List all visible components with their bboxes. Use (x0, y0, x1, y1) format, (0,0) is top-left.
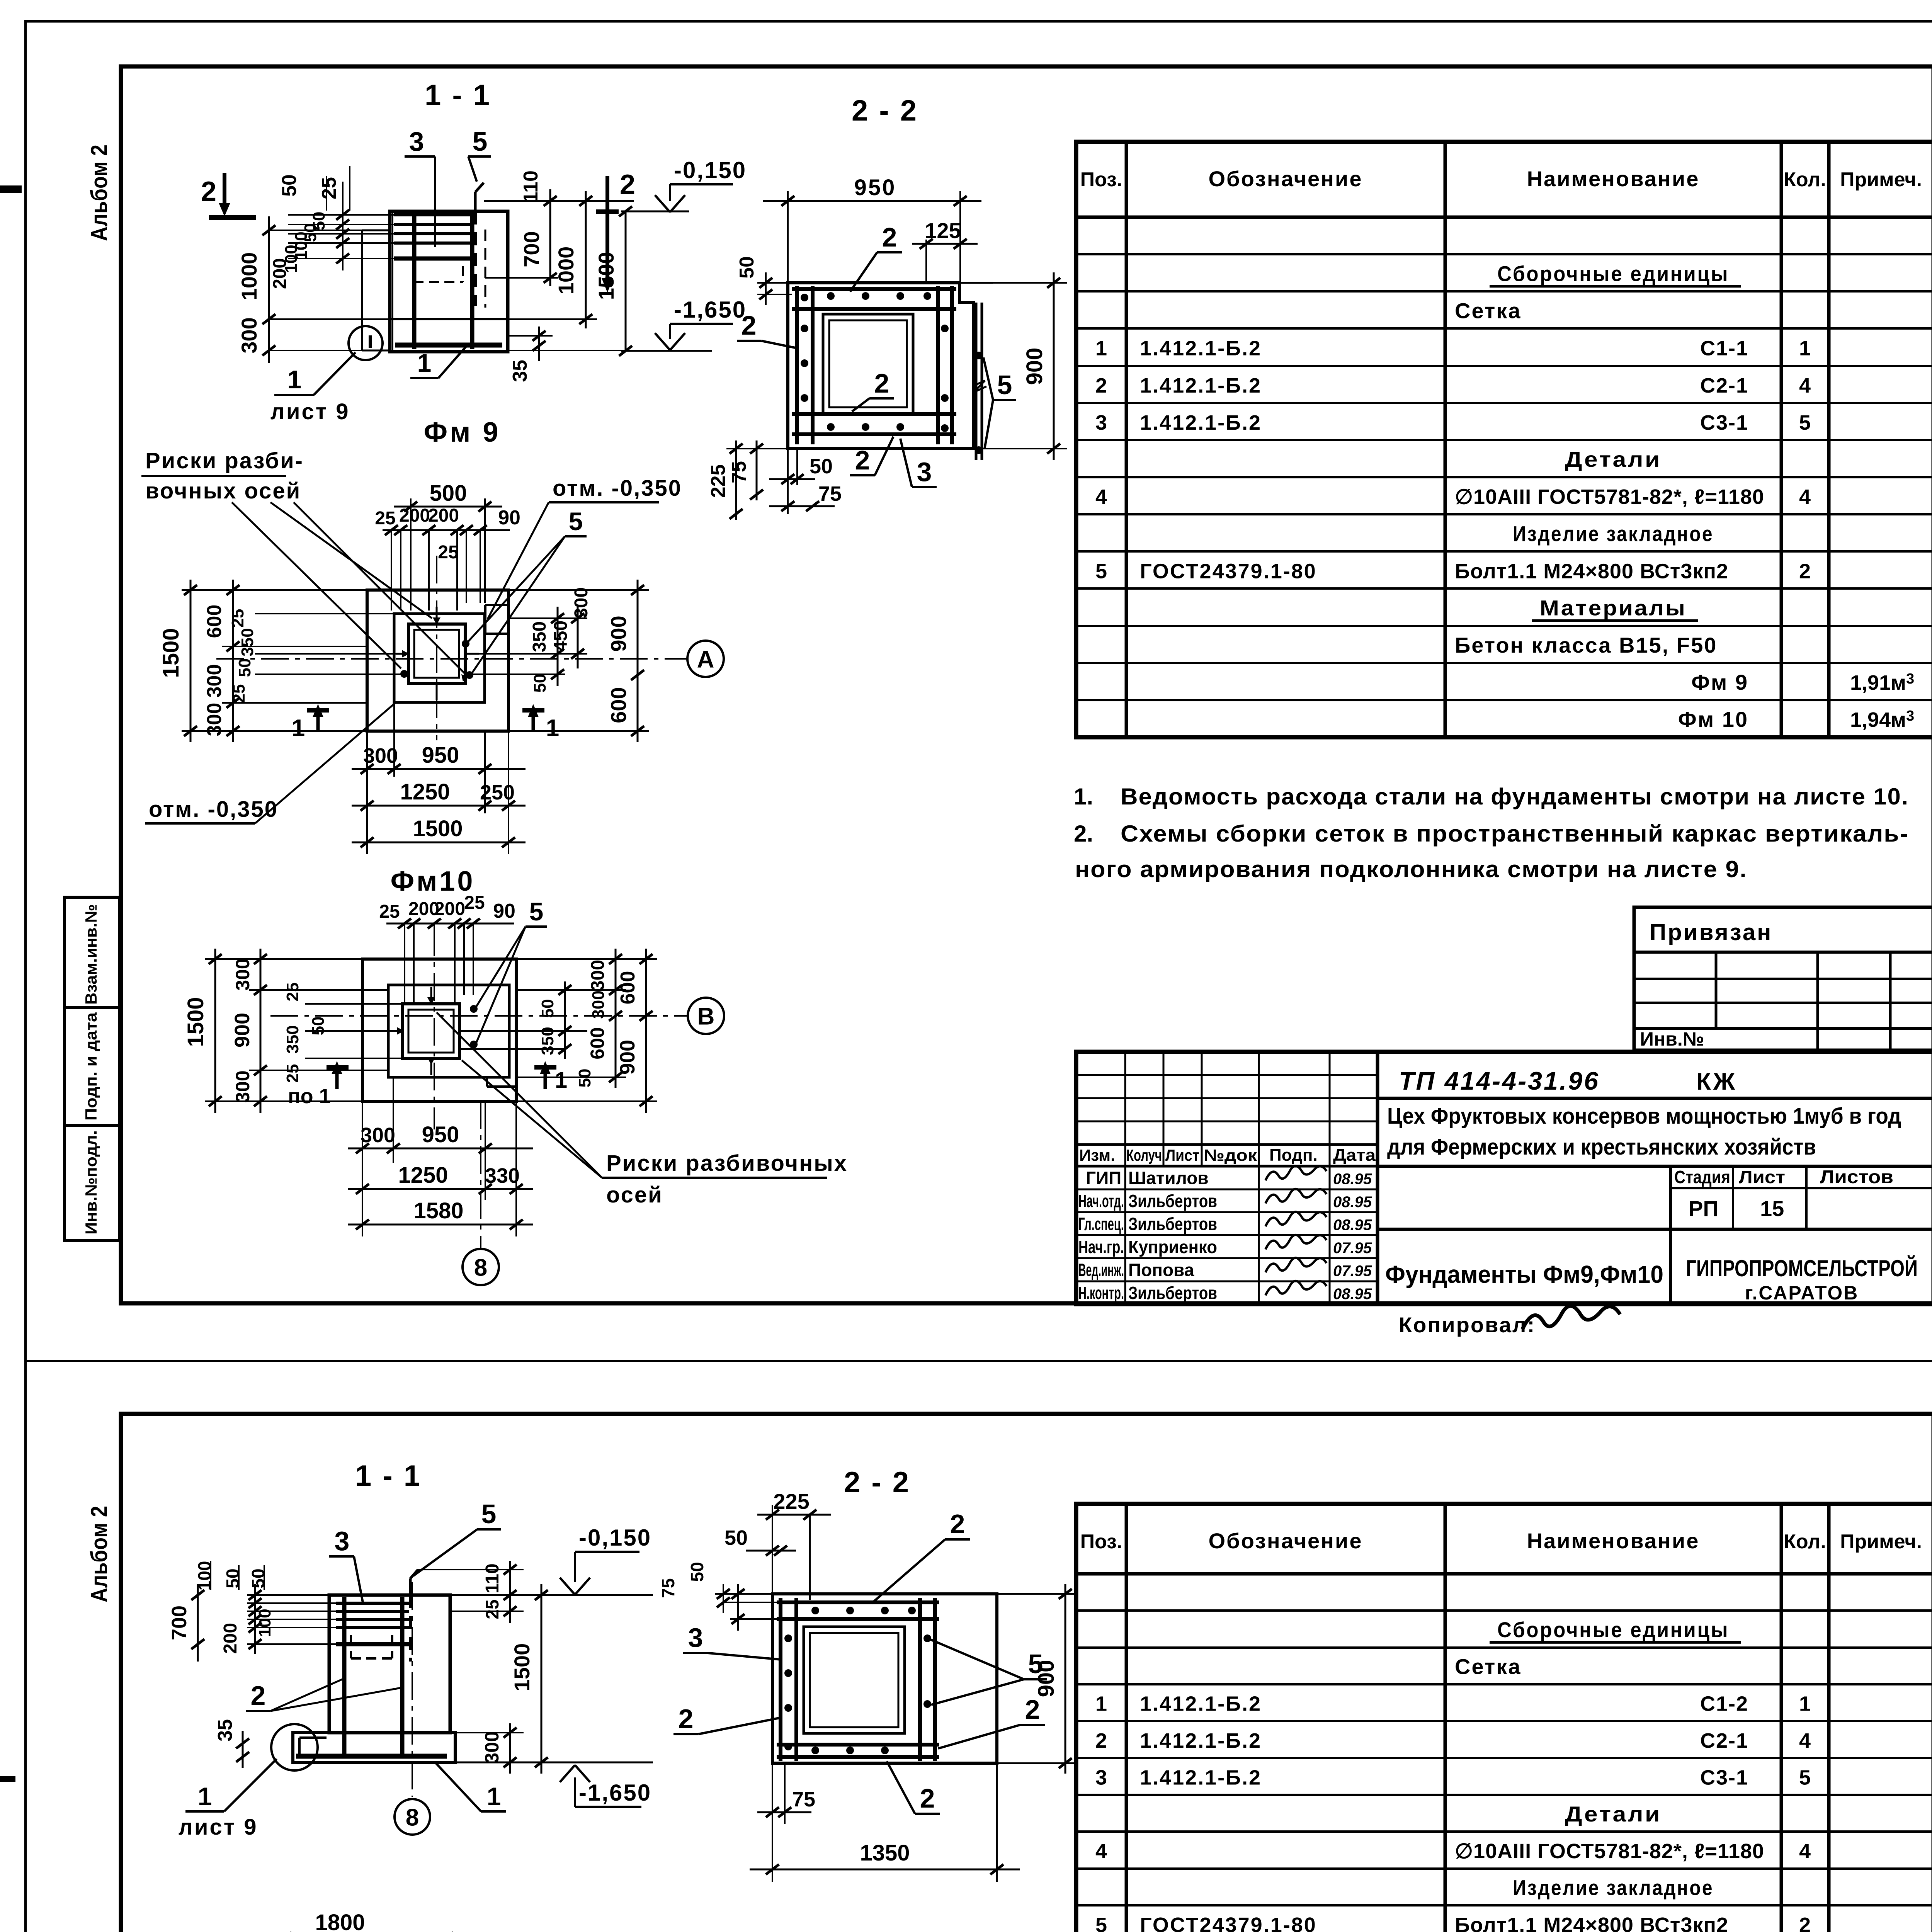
svg-text:600: 600 (587, 1027, 608, 1059)
svg-text:-0,150: -0,150 (579, 1525, 651, 1551)
section 1-1b top mesh bars (336, 1602, 409, 1605)
FM10 axis marks (427, 997, 435, 1005)
svg-text:900: 900 (1022, 348, 1047, 385)
svg-text:1 - 1: 1 - 1 (425, 79, 491, 112)
svg-text:1: 1 (555, 1068, 567, 1093)
svg-text:350: 350 (238, 628, 257, 656)
svg-text:1 - 1: 1 - 1 (355, 1459, 422, 1492)
svg-text:2: 2 (855, 445, 870, 475)
svg-text:2: 2 (1095, 374, 1107, 397)
section 2-2 outline with console step (788, 283, 974, 449)
section 2-2b dim 900 right (997, 1593, 1078, 1595)
svg-text:Фм 9: Фм 9 (424, 417, 501, 448)
svg-text:250: 250 (480, 781, 515, 804)
svg-text:125: 125 (925, 218, 961, 243)
svg-text:50: 50 (575, 1069, 594, 1088)
svg-text:1500: 1500 (158, 628, 184, 678)
svg-text:300: 300 (203, 703, 226, 736)
section 1-1 mesh end hook (369, 335, 372, 348)
svg-text:2: 2 (201, 176, 216, 207)
elevation -1,650 bottom sheet (455, 1762, 653, 1764)
svg-text:08.95: 08.95 (1333, 1286, 1372, 1303)
svg-text:300: 300 (203, 664, 226, 698)
svg-text:ГОСТ24379.1-80: ГОСТ24379.1-80 (1140, 560, 1317, 583)
section 1-1 vertical rebar (412, 213, 417, 349)
svg-text:500: 500 (430, 481, 467, 506)
svg-text:25: 25 (283, 1064, 302, 1083)
svg-text:Цех Фруктовых консервов мощнос: Цех Фруктовых консервов мощностью 1муб в… (1387, 1104, 1901, 1129)
section 1-1b right dims 25/110 (418, 1569, 524, 1570)
svg-text:1.412.1-Б.2: 1.412.1-Б.2 (1140, 374, 1262, 397)
title block top sheet (1076, 1052, 1932, 1304)
svg-text:900: 900 (616, 1040, 639, 1075)
section 2-2b dims 50/75 left (715, 1593, 772, 1595)
svg-text:Фм 10: Фм 10 (1678, 707, 1748, 731)
svg-text:07.95: 07.95 (1333, 1240, 1372, 1257)
svg-text:Наименование: Наименование (1527, 167, 1700, 191)
svg-text:1800: 1800 (315, 1910, 365, 1932)
svg-text:950: 950 (422, 743, 459, 768)
svg-text:отм. -0,350: отм. -0,350 (149, 797, 278, 822)
svg-text:1500: 1500 (510, 1643, 534, 1692)
svg-text:-1,650: -1,650 (579, 1780, 651, 1806)
svg-text:Альбом 2: Альбом 2 (86, 1506, 112, 1602)
svg-text:300: 300 (232, 1070, 253, 1102)
svg-text:1: 1 (1799, 1692, 1811, 1716)
section 1-1 cut mark 2 left (223, 173, 226, 205)
svg-text:Болт1.1 М24×800 ВСт3кп2: Болт1.1 М24×800 ВСт3кп2 (1455, 560, 1728, 583)
section 2-2b dim 1350 (996, 1763, 998, 1882)
svg-text:25: 25 (375, 508, 395, 529)
svg-text:200: 200 (270, 258, 290, 289)
FM10 dims 300/900/300 left (249, 989, 388, 991)
svg-text:Шатилов: Шатилов (1128, 1168, 1209, 1188)
FM10 bottom dims (362, 1101, 363, 1236)
section 1-1 dim 110/700 (549, 189, 551, 286)
svg-text:осей: осей (606, 1182, 663, 1207)
stamp boxes top sheet (65, 897, 120, 1241)
section 2-2b mesh bars (777, 1600, 939, 1604)
section 2-2 level line extension (959, 282, 993, 284)
svg-text:∅10АIII ГОСТ5781-82*, ℓ=1180: ∅10АIII ГОСТ5781-82*, ℓ=1180 (1455, 1840, 1764, 1863)
svg-text:1,91м3: 1,91м3 (1850, 671, 1914, 694)
section 1-1 dim 35 (538, 327, 540, 361)
svg-text:25: 25 (318, 177, 340, 199)
FM10 top dims 25/200/200/25/90 (386, 923, 514, 925)
section 1-1b left ext lines (247, 1602, 336, 1604)
svg-text:200: 200 (399, 505, 430, 526)
section 1-1b dim 700 left (197, 1584, 199, 1662)
svg-text:1000: 1000 (554, 247, 578, 295)
svg-text:Попова: Попова (1128, 1260, 1194, 1280)
svg-text:лист 9: лист 9 (270, 399, 350, 424)
svg-text:3: 3 (335, 1526, 350, 1556)
svg-text:08.95: 08.95 (1333, 1216, 1372, 1233)
svg-text:07.95: 07.95 (1333, 1262, 1372, 1279)
svg-text:900: 900 (1034, 1660, 1059, 1697)
svg-text:Изделие закладное: Изделие закладное (1513, 1876, 1714, 1900)
svg-text:4: 4 (1095, 485, 1107, 509)
svg-text:25: 25 (228, 609, 247, 628)
FM10 cut mark right (534, 1065, 556, 1070)
svg-text:Кол.: Кол. (1784, 1531, 1826, 1553)
svg-text:600: 600 (606, 687, 631, 723)
svg-text:Листов: Листов (1820, 1167, 1893, 1187)
svg-text:2: 2 (874, 368, 889, 398)
svg-text:2: 2 (1799, 560, 1811, 583)
section 1-1b circle 8 (395, 1799, 430, 1835)
svg-text:5: 5 (1799, 1766, 1811, 1789)
svg-text:300: 300 (588, 960, 608, 991)
svg-text:5: 5 (1095, 1913, 1107, 1932)
svg-text:С1-2: С1-2 (1700, 1692, 1748, 1716)
svg-text:700: 700 (519, 231, 544, 267)
svg-text:25: 25 (482, 1599, 502, 1619)
section 2-2 rebar dots (827, 292, 835, 300)
svg-text:Сборочные единицы: Сборочные единицы (1497, 1617, 1729, 1642)
svg-text:Нач.гр.: Нач.гр. (1078, 1237, 1124, 1257)
svg-text:Зильбертов: Зильбертов (1128, 1283, 1217, 1303)
svg-text:300: 300 (481, 1731, 503, 1763)
FM10 axis circle V (688, 998, 724, 1034)
svg-text:С3-1: С3-1 (1700, 1766, 1748, 1789)
section 1-1 foundation outline (390, 211, 508, 352)
svg-text:Обозначение: Обозначение (1208, 1529, 1362, 1553)
svg-text:3: 3 (1095, 1766, 1107, 1789)
section 1-1 pit outline left (362, 230, 390, 231)
svg-text:Инв.№подл.: Инв.№подл. (82, 1130, 100, 1235)
section 1-1 dim 1000/300 left (268, 216, 270, 363)
svg-text:4: 4 (1799, 485, 1811, 509)
dim 1500 between levels (625, 211, 627, 351)
svg-text:5: 5 (529, 897, 544, 926)
section 2-2 dim 900 right (974, 282, 1067, 284)
svg-text:Лист: Лист (1739, 1167, 1785, 1187)
svg-text:1.412.1-Б.2: 1.412.1-Б.2 (1140, 1692, 1262, 1716)
svg-text:С1-1: С1-1 (1700, 337, 1748, 360)
section 2-2b rebar dots (811, 1607, 819, 1614)
section 1-1b column outline (329, 1595, 450, 1733)
svg-text:25: 25 (438, 542, 458, 563)
bottom sheet frame (121, 1414, 1932, 1932)
FM10 console step bottom right (486, 1077, 488, 1087)
svg-text:3: 3 (917, 457, 932, 487)
svg-text:950: 950 (422, 1122, 459, 1147)
svg-text:Примеч.: Примеч. (1840, 1531, 1922, 1553)
svg-text:2: 2 (742, 310, 757, 340)
svg-text:Инв.№: Инв.№ (1640, 1028, 1704, 1050)
FM9 middle square (394, 614, 485, 702)
section 1-1 cut mark 2 right (605, 176, 609, 280)
svg-text:2: 2 (1025, 1694, 1040, 1725)
svg-text:Риски разбивочных: Риски разбивочных (606, 1151, 848, 1176)
svg-text:300: 300 (237, 317, 261, 353)
section 2-2b dim 75 bottom (772, 1763, 773, 1882)
svg-text:Подп.: Подп. (1269, 1146, 1318, 1165)
svg-text:Ведомость расхода стали на фун: Ведомость расхода стали на фундаменты см… (1121, 784, 1909, 810)
svg-text:1: 1 (1799, 337, 1811, 360)
FM10 axis 8 dashed line and circle (480, 1101, 481, 1249)
svg-text:1500: 1500 (413, 816, 463, 841)
FM9 console step (485, 604, 509, 606)
svg-text:Лист: Лист (1165, 1146, 1199, 1164)
section 2-2 dim 950 (787, 191, 789, 286)
FM9 centerlines (436, 556, 437, 740)
specification table top sheet (1076, 142, 1932, 737)
svg-text:75: 75 (728, 461, 750, 483)
svg-text:РП: РП (1689, 1196, 1719, 1221)
section 1-1 anchor bolt dashed (474, 211, 477, 306)
svg-text:110: 110 (520, 170, 542, 203)
svg-text:15: 15 (1760, 1196, 1784, 1221)
FM9 bottom dims (366, 731, 368, 854)
svg-text:25: 25 (230, 684, 248, 703)
svg-text:Примеч.: Примеч. (1840, 168, 1922, 191)
svg-text:Детали: Детали (1565, 447, 1662, 471)
svg-text:2: 2 (920, 1783, 935, 1813)
svg-text:200: 200 (428, 505, 459, 526)
FM9 small dims top 25/200/200/25/90 (383, 529, 510, 531)
svg-text:08.95: 08.95 (1333, 1194, 1372, 1211)
section 2-2b glass double square (804, 1627, 905, 1733)
svg-text:50: 50 (531, 674, 549, 693)
svg-text:25: 25 (283, 983, 302, 1002)
svg-text:1250: 1250 (398, 1163, 448, 1188)
svg-text:1.: 1. (1074, 784, 1093, 810)
svg-text:по 1: по 1 (288, 1085, 331, 1108)
svg-text:1: 1 (198, 1782, 212, 1811)
svg-text:А: А (697, 646, 714, 673)
section 1-1 bottom mesh C1 (395, 343, 502, 348)
svg-text:25: 25 (464, 893, 485, 913)
svg-text:Копировал:: Копировал: (1399, 1313, 1536, 1337)
svg-text:Фм10: Фм10 (391, 866, 475, 897)
svg-text:350: 350 (538, 1027, 557, 1055)
privyazan table top sheet (1634, 907, 1932, 1050)
page divider line between scanned sheets (26, 1360, 1932, 1362)
svg-text:35: 35 (509, 360, 531, 382)
svg-text:900: 900 (231, 1013, 254, 1048)
section 1-1b small dims left (254, 1584, 256, 1654)
section 1-1 left extension lines (270, 230, 362, 231)
section 1-1 right extension lines (484, 200, 634, 202)
svg-text:450: 450 (551, 621, 571, 651)
svg-text:1: 1 (292, 715, 305, 742)
svg-text:отм. -0,350: отм. -0,350 (553, 476, 682, 501)
FM9 axis marks riski (433, 617, 440, 625)
svg-text:600: 600 (617, 971, 639, 1005)
FM10 dim 1500 left (205, 958, 362, 960)
svg-text:25: 25 (379, 901, 400, 922)
svg-text:200: 200 (220, 1623, 241, 1654)
svg-text:вочных осей: вочных осей (145, 478, 301, 503)
svg-text:1,94м3: 1,94м3 (1850, 708, 1914, 731)
svg-text:Колуч: Колуч (1126, 1146, 1162, 1164)
top sheet frame (121, 66, 1932, 1303)
svg-text:Изм.: Изм. (1079, 1146, 1115, 1164)
svg-text:Сетка: Сетка (1455, 1654, 1521, 1679)
svg-text:2.: 2. (1074, 821, 1093, 847)
svg-text:5: 5 (481, 1499, 497, 1529)
svg-text:08.95: 08.95 (1333, 1170, 1372, 1187)
section 2-2 mesh bars (792, 287, 956, 291)
svg-text:2: 2 (882, 222, 897, 252)
svg-text:Вед.инж.: Вед.инж. (1078, 1260, 1124, 1280)
svg-text:г.САРАТОВ: г.САРАТОВ (1745, 1282, 1859, 1304)
svg-text:1000: 1000 (237, 252, 261, 301)
FM9 right dims 300/450/350/50 (509, 617, 587, 619)
svg-text:В: В (697, 1003, 715, 1030)
svg-text:1.412.1-Б.2: 1.412.1-Б.2 (1140, 411, 1262, 434)
svg-text:Бетон класса В15, F50: Бетон класса В15, F50 (1455, 633, 1717, 657)
svg-text:300: 300 (363, 744, 398, 767)
svg-text:1: 1 (417, 349, 432, 377)
section 2-2b bolt axis (809, 1515, 811, 1600)
svg-text:С3-1: С3-1 (1700, 411, 1748, 434)
svg-text:1.412.1-Б.2: 1.412.1-Б.2 (1140, 337, 1262, 360)
svg-text:100: 100 (255, 1609, 274, 1637)
svg-text:Привязан: Привязан (1650, 919, 1772, 945)
scanner mark left edge 1 (0, 185, 22, 193)
FM10 centerlines (434, 928, 435, 1129)
svg-text:-1,650: -1,650 (674, 297, 747, 323)
svg-text:300: 300 (589, 990, 608, 1019)
svg-text:Сетка: Сетка (1455, 299, 1521, 323)
section 1-1b dim 1500 right (541, 1584, 543, 1774)
svg-text:300: 300 (232, 958, 253, 990)
FM9 dim 500 top (410, 498, 412, 611)
svg-text:950: 950 (854, 175, 896, 200)
svg-text:225: 225 (707, 464, 730, 498)
section 1-1b dim 300 right (455, 1732, 524, 1733)
svg-text:50: 50 (223, 1568, 243, 1588)
svg-text:Подп. и дата: Подп. и дата (82, 1012, 100, 1121)
svg-text:Поз.: Поз. (1080, 1531, 1122, 1553)
svg-text:2 - 2: 2 - 2 (852, 94, 918, 127)
svg-text:3: 3 (409, 126, 424, 156)
svg-text:90: 90 (493, 900, 515, 922)
section 2-2 dim 125 (925, 240, 927, 284)
svg-text:5: 5 (473, 126, 488, 156)
svg-text:225: 225 (773, 1489, 809, 1514)
svg-text:Стадия: Стадия (1674, 1167, 1730, 1187)
svg-text:2: 2 (679, 1704, 694, 1734)
svg-text:ТП 414-4-31.96: ТП 414-4-31.96 (1399, 1066, 1600, 1095)
svg-text:С2-1: С2-1 (1700, 374, 1748, 397)
svg-text:2: 2 (620, 169, 635, 200)
FM9 axis circle A (687, 641, 724, 677)
section 2-2 dim 50 top left (757, 282, 788, 284)
scanner mark left edge 2 (0, 1776, 15, 1782)
svg-text:1350: 1350 (860, 1840, 910, 1866)
svg-text:50: 50 (538, 999, 557, 1018)
section 2-2 bolts 5 (975, 303, 978, 460)
svg-text:Изделие закладное: Изделие закладное (1513, 521, 1714, 546)
svg-text:Куприенко: Куприенко (1128, 1237, 1217, 1257)
svg-text:1: 1 (1095, 1692, 1107, 1716)
svg-text:2: 2 (950, 1509, 965, 1539)
svg-text:110: 110 (482, 1563, 503, 1593)
svg-text:2: 2 (1799, 1913, 1811, 1932)
svg-text:-0,150: -0,150 (674, 157, 747, 183)
svg-text:2 - 2: 2 - 2 (844, 1466, 910, 1499)
svg-text:Схемы сборки сеток в пространс: Схемы сборки сеток в пространственный ка… (1121, 821, 1909, 847)
FM10 right dims 50/300/600 350/600 900/50 (516, 989, 626, 991)
svg-text:КЖ: КЖ (1696, 1068, 1737, 1095)
svg-text:5: 5 (569, 507, 583, 536)
svg-text:90: 90 (498, 507, 520, 529)
svg-text:1.412.1-Б.2: 1.412.1-Б.2 (1140, 1729, 1262, 1752)
svg-text:Детали: Детали (1565, 1802, 1662, 1826)
svg-text:ного армирования подколонника: ного армирования подколонника смотри на … (1075, 856, 1747, 882)
svg-text:50: 50 (248, 1568, 268, 1588)
svg-text:50: 50 (309, 1017, 328, 1036)
svg-text:для Фермерских и крестьянских: для Фермерских и крестьянских хозяйств (1387, 1134, 1816, 1160)
section 2-2 dims 50/75 bottom (787, 449, 789, 514)
section 1-1b bottom mesh (296, 1754, 447, 1759)
svg-text:50: 50 (278, 174, 301, 197)
section 1-1b footing slab (293, 1733, 455, 1762)
svg-text:5: 5 (1095, 560, 1107, 583)
svg-text:Нач.отд.: Нач.отд. (1078, 1191, 1124, 1211)
svg-text:1500: 1500 (183, 997, 208, 1047)
svg-text:330: 330 (485, 1164, 520, 1187)
svg-text:Зильбертов: Зильбертов (1128, 1191, 1217, 1211)
svg-text:700: 700 (168, 1605, 191, 1640)
svg-text:Дата: Дата (1333, 1146, 1376, 1165)
svg-text:ГИП: ГИП (1086, 1168, 1121, 1188)
svg-text:350: 350 (529, 621, 550, 652)
FM9 right dims 900/600 (509, 589, 649, 591)
svg-text:2: 2 (1095, 1729, 1107, 1752)
specification table bottom sheet (1076, 1504, 1932, 1932)
section 2-2b outline (772, 1594, 997, 1763)
svg-text:8: 8 (406, 1804, 419, 1831)
svg-text:Фундаменты Фм9,Фм10: Фундаменты Фм9,Фм10 (1385, 1260, 1663, 1288)
section 1-1b axis centerline (412, 1582, 413, 1797)
svg-text:1.412.1-Б.2: 1.412.1-Б.2 (1140, 1766, 1262, 1789)
svg-text:Материалы: Материалы (1540, 596, 1687, 620)
FM9 glass double square (408, 624, 465, 684)
section 1-1 dim 1000 right (585, 191, 587, 328)
svg-text:4: 4 (1095, 1840, 1107, 1863)
section 2-2b dim 225 (772, 1505, 773, 1594)
svg-text:300: 300 (361, 1124, 395, 1147)
svg-text:200: 200 (434, 899, 465, 919)
svg-text:50: 50 (235, 658, 254, 677)
section 2-2 glass double square (823, 314, 913, 413)
svg-text:1: 1 (546, 715, 559, 742)
svg-text:Взам.инв.№: Взам.инв.№ (82, 904, 100, 1005)
section 2-2 dims 225/75 left bottom (735, 440, 737, 520)
FM10 glass double square (403, 1004, 459, 1058)
svg-text:4: 4 (1799, 374, 1811, 397)
FM9 dims 600/300 left (222, 646, 367, 647)
svg-text:1500: 1500 (594, 252, 618, 300)
svg-text:Наименование: Наименование (1527, 1529, 1700, 1553)
svg-text:Болт1.1 М24×800 ВСт3кп2: Болт1.1 М24×800 ВСт3кп2 (1455, 1913, 1728, 1932)
FM9 outer square (367, 590, 509, 731)
svg-text:Фм 9: Фм 9 (1691, 670, 1748, 694)
svg-text:1: 1 (287, 365, 302, 394)
section 1-1 top mesh bars (394, 213, 474, 216)
section 1-1b dim 35 (242, 1731, 244, 1768)
svg-text:1: 1 (487, 1782, 501, 1811)
svg-text:С2-1: С2-1 (1700, 1729, 1748, 1752)
svg-text:Кол.: Кол. (1784, 168, 1826, 191)
svg-text:8: 8 (474, 1254, 487, 1281)
svg-text:900: 900 (606, 616, 631, 651)
